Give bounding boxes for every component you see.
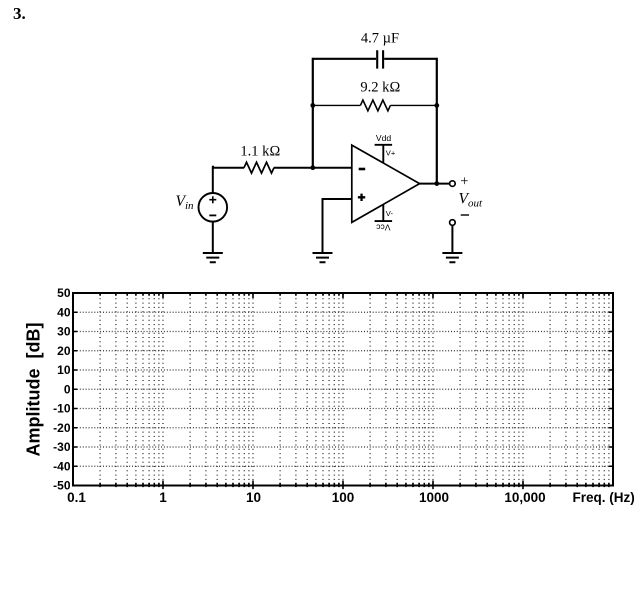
capacitor C1: [377, 50, 383, 68]
svg-text:Vcc: Vcc: [375, 223, 390, 233]
wire : R1 to op-amp inverting input: [274, 167, 352, 169]
svg-text:Freq. (Hz): Freq. (Hz): [573, 490, 635, 505]
svg-text:+: +: [460, 174, 468, 190]
label - (output): [461, 214, 469, 216]
svg-text:V+: V+: [386, 148, 396, 157]
svg-text:10: 10: [57, 363, 71, 377]
wire : top feedback branch right of C1: [384, 58, 437, 60]
svg-text:Amplitude [dB]: Amplitude [dB]: [24, 323, 44, 457]
svg-text:100: 100: [332, 490, 355, 505]
op-amp V- power pin: [375, 205, 393, 221]
junction : right vertical / output node: [434, 181, 439, 186]
svg-text:Vout: Vout: [459, 191, 483, 210]
svg-text:3.: 3.: [13, 4, 26, 23]
bode plot : axes box: [73, 293, 613, 486]
svg-text:0: 0: [64, 382, 71, 396]
op-amp inverting input sign: [359, 168, 366, 171]
wire : Vin to R1: [213, 167, 244, 169]
svg-text:10,000: 10,000: [504, 490, 545, 505]
svg-text:4.7 µF: 4.7 µF: [361, 31, 399, 47]
source V1 + sign: [209, 196, 216, 203]
source V1 - sign: [209, 214, 216, 216]
ground : non-inverting input: [313, 253, 333, 262]
bode plot : minor+major vertical gridlines: [100, 294, 609, 485]
terminal : Vout -: [450, 220, 456, 226]
junction : left vertical / R2 branch: [310, 103, 315, 108]
wire : Vin bottom to ground: [212, 222, 214, 253]
wire : Vin top to input node: [213, 167, 214, 193]
svg-text:50: 50: [57, 286, 71, 300]
resistor R1: [244, 162, 274, 173]
ground : source: [203, 253, 223, 262]
wire : left feedback vertical: [312, 58, 314, 168]
svg-text:-20: -20: [53, 421, 71, 435]
wire : resistor feedback branch left: [313, 104, 361, 106]
svg-text:1.1 kΩ: 1.1 kΩ: [240, 144, 280, 160]
svg-text:40: 40: [57, 305, 71, 319]
wire : top feedback branch left of C1: [313, 58, 376, 60]
svg-text:Vin: Vin: [176, 193, 195, 212]
junction : right vertical / R2 branch: [434, 103, 439, 108]
op-amp non-inverting input sign: [358, 194, 365, 201]
svg-text:0.1: 0.1: [67, 490, 86, 505]
bode plot : horizontal gridlines: [74, 312, 612, 466]
svg-text:30: 30: [57, 325, 71, 339]
wire : Vout - terminal to ground: [451, 225, 453, 253]
svg-text:1: 1: [159, 490, 167, 505]
svg-text:V-: V-: [386, 209, 394, 218]
svg-text:1000: 1000: [419, 490, 449, 505]
svg-text:20: 20: [57, 344, 71, 358]
svg-text:Vdd: Vdd: [376, 133, 392, 143]
svg-text:9.2 kΩ: 9.2 kΩ: [360, 80, 400, 96]
wire : op-amp output: [420, 183, 450, 185]
wire : right feedback vertical: [436, 58, 438, 184]
source V1 (Vin): [199, 193, 228, 222]
op-amp U1: [352, 145, 420, 222]
svg-text:10: 10: [246, 490, 261, 505]
ground : output reference: [442, 253, 462, 262]
wire : non-inverting input to ground: [323, 199, 352, 253]
wire : resistor feedback branch right: [390, 104, 436, 106]
bode plot : tick marks: [73, 293, 613, 489]
svg-text:-40: -40: [53, 459, 71, 473]
svg-text:-30: -30: [53, 440, 71, 454]
junction : left vertical / inverting input node: [310, 165, 315, 170]
op-amp V+ power pin: [375, 145, 393, 163]
svg-text:-10: -10: [53, 402, 71, 416]
terminal : Vout +: [450, 181, 456, 187]
resistor R2: [360, 100, 390, 111]
